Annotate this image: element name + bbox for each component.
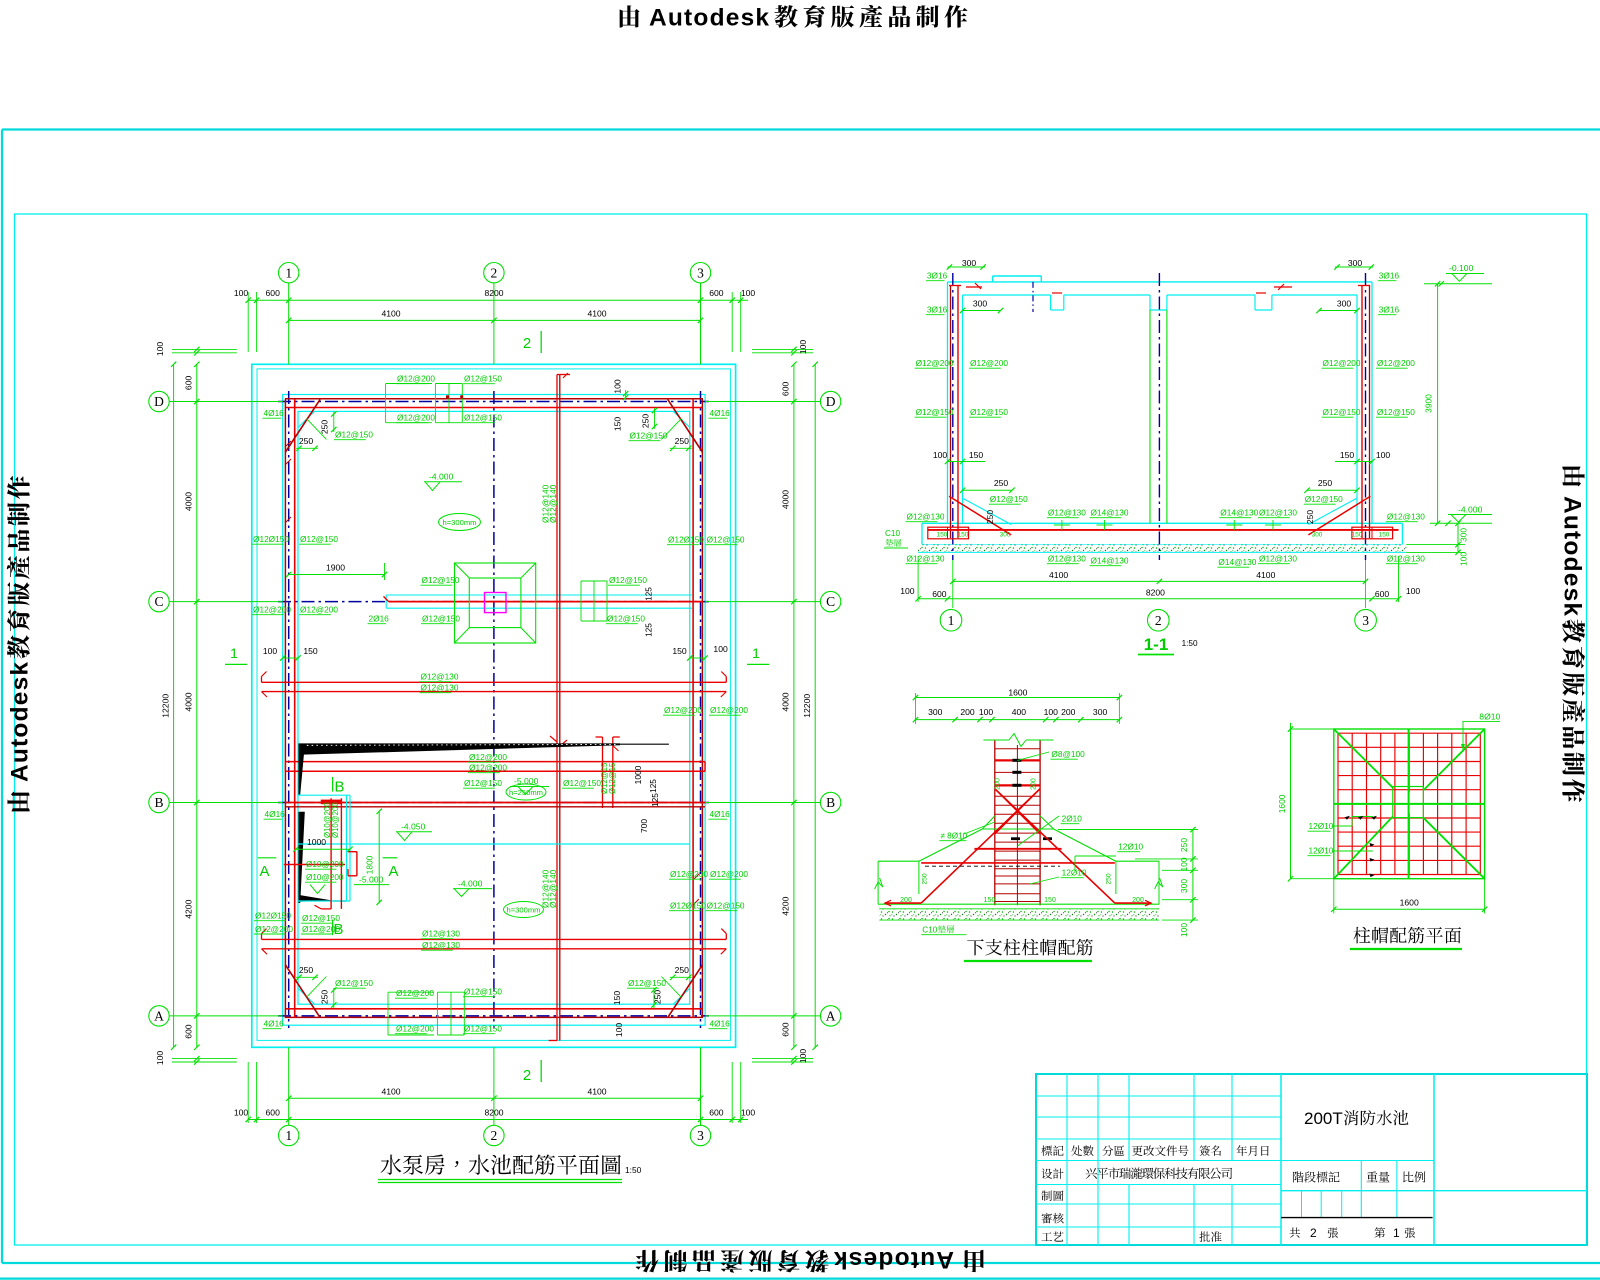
- plan: corner chamfers: [298, 411, 315, 427]
- detail2: green diagonals: [1334, 729, 1394, 788]
- svg-text:1600: 1600: [1400, 898, 1419, 908]
- svg-text:Ø12@150: Ø12@150: [335, 430, 373, 440]
- svg-text:B: B: [334, 779, 344, 796]
- svg-text:200: 200: [960, 707, 975, 717]
- svg-text:300: 300: [1348, 258, 1363, 268]
- left banner (rotated -90): [7, 476, 34, 811]
- svg-text:2: 2: [491, 265, 498, 280]
- svg-text:3: 3: [697, 265, 704, 280]
- detail2: title: [1354, 927, 1462, 944]
- svg-text:250: 250: [641, 414, 651, 429]
- svg-text:Ø12@150: Ø12@150: [335, 978, 373, 988]
- plan grid circles bottom 1 2 3: [279, 1125, 299, 1145]
- svg-text:Ø12@150: Ø12@150: [916, 407, 954, 417]
- plan: left dimension chain: [196, 364, 198, 1047]
- svg-text:150: 150: [969, 450, 984, 460]
- svg-text:Ø12@150: Ø12@150: [970, 407, 1008, 417]
- svg-text:600: 600: [1375, 589, 1390, 599]
- svg-text:250: 250: [1105, 873, 1112, 885]
- svg-text:Ø12@150: Ø12@150: [422, 575, 460, 585]
- svg-text:A: A: [826, 1009, 836, 1024]
- svg-text:100: 100: [798, 1049, 808, 1064]
- detail2: green cross: [1408, 729, 1410, 879]
- svg-text:150: 150: [1352, 532, 1363, 539]
- svg-text:-5.000: -5.000: [359, 875, 384, 885]
- svg-text:3Ø16: 3Ø16: [927, 271, 948, 281]
- svg-text:150: 150: [613, 417, 623, 432]
- inner drawing frame: [15, 214, 1587, 1245]
- detail1: red X diagonals: [995, 789, 1115, 903]
- svg-text:100: 100: [155, 342, 165, 357]
- svg-text:Ø12@200: Ø12@200: [396, 1024, 434, 1034]
- svg-text:Ø12@200: Ø12@200: [1323, 358, 1361, 368]
- plan main title: [381, 1155, 621, 1175]
- svg-text:250: 250: [675, 965, 690, 975]
- svg-text:4Ø16: 4Ø16: [264, 408, 285, 418]
- svg-text:1: 1: [948, 613, 955, 628]
- svg-text:h=300mm: h=300mm: [507, 905, 541, 914]
- svg-text:Ø12@200: Ø12@200: [253, 605, 291, 615]
- svg-text:600: 600: [184, 376, 194, 391]
- svg-text:125: 125: [651, 793, 660, 807]
- section: wall red bars: [950, 285, 952, 538]
- svg-text:250: 250: [994, 478, 1009, 488]
- detail2: left dim 1600: [1290, 723, 1292, 879]
- title block texts row1: [1041, 1145, 1063, 1156]
- svg-text:Ø12@200: Ø12@200: [710, 869, 748, 879]
- plan: right dimension chain: [793, 364, 795, 1047]
- svg-text:250: 250: [675, 436, 690, 446]
- svg-text:300: 300: [1459, 528, 1469, 542]
- section: slab red main bar: [928, 529, 1399, 531]
- plan: C-axis red bar: [389, 601, 703, 603]
- plan: wall inner face: [298, 411, 690, 1004]
- svg-text:100: 100: [741, 1108, 756, 1118]
- section: base slab: [922, 522, 1402, 524]
- svg-text:Ø12@130: Ø12@130: [422, 940, 460, 950]
- svg-text:100: 100: [900, 586, 915, 596]
- svg-text:Ø10@200: Ø10@200: [306, 873, 344, 882]
- svg-text:Ø12@150: Ø12@150: [607, 614, 645, 624]
- svg-text:Ø12@200: Ø12@200: [1377, 358, 1415, 368]
- svg-text:4000: 4000: [184, 692, 194, 711]
- svg-text:Ø12@200: Ø12@200: [469, 752, 507, 762]
- svg-text:1:50: 1:50: [625, 1165, 642, 1175]
- svg-text:4100: 4100: [1049, 570, 1068, 580]
- svg-text:Ø12@200: Ø12@200: [670, 869, 708, 879]
- detail1: top break line: [983, 739, 1009, 741]
- plan: center column cap squares: [455, 563, 536, 643]
- svg-text:150: 150: [1379, 532, 1390, 539]
- svg-text:150: 150: [612, 991, 622, 1006]
- svg-text:Autodesk: Autodesk: [649, 5, 770, 32]
- svg-text:Ø12Ø150: Ø12Ø150: [670, 901, 706, 911]
- section: bedding hatch strip: [918, 545, 1406, 553]
- svg-text:4Ø16: 4Ø16: [265, 809, 286, 819]
- svg-text:Ø12@200: Ø12@200: [302, 924, 340, 934]
- svg-text:Ø12@150: Ø12@150: [464, 413, 502, 423]
- svg-text:Autodesk: Autodesk: [7, 661, 34, 782]
- plan: black section wedge bottom: [299, 895, 334, 902]
- svg-text:300: 300: [973, 299, 988, 309]
- svg-text:4Ø16: 4Ø16: [264, 1019, 285, 1029]
- svg-text:12Ø10: 12Ø10: [1309, 846, 1334, 856]
- svg-text:100: 100: [1406, 586, 1421, 596]
- svg-text:h=250mm: h=250mm: [509, 788, 543, 797]
- svg-text:4Ø16: 4Ø16: [710, 1019, 731, 1029]
- svg-text:200: 200: [900, 897, 912, 904]
- svg-text:4Ø16: 4Ø16: [710, 809, 731, 819]
- svg-text:600: 600: [781, 1022, 791, 1037]
- detail1: cap green outline: [982, 828, 1053, 830]
- svg-text:Ø12@140: Ø12@140: [548, 869, 558, 908]
- title block texts col labels: [1041, 1168, 1063, 1179]
- svg-text:D: D: [154, 394, 164, 409]
- svg-text:Ø12@130: Ø12@130: [1048, 554, 1086, 564]
- svg-text:4000: 4000: [781, 490, 791, 509]
- svg-text:700: 700: [639, 819, 649, 833]
- detail2: center hole: [1397, 792, 1418, 813]
- detail1: inner X: [995, 789, 1040, 834]
- svg-text:1: 1: [285, 1128, 292, 1143]
- svg-text:Ø12@15: Ø12@15: [608, 762, 617, 794]
- svg-text:3Ø16: 3Ø16: [927, 305, 948, 315]
- svg-text:3: 3: [697, 1128, 704, 1143]
- svg-text:Ø12@200: Ø12@200: [396, 988, 434, 998]
- svg-text:250: 250: [1179, 838, 1189, 852]
- section: 3900 dim: [1437, 284, 1439, 524]
- svg-text:200: 200: [1132, 897, 1144, 904]
- detail2: red grid: [1337, 733, 1339, 874]
- title block right area cells: [1360, 1161, 1362, 1218]
- svg-text:1: 1: [230, 645, 238, 661]
- svg-text:12Ø10: 12Ø10: [1309, 821, 1334, 831]
- plan: wall rebar lines red: [285, 398, 703, 400]
- svg-text:-4.050: -4.050: [401, 822, 426, 832]
- svg-text:Ø12@130: Ø12@130: [1387, 512, 1425, 522]
- svg-text:Ø12@150: Ø12@150: [707, 535, 745, 545]
- svg-text:Ø10@200: Ø10@200: [331, 802, 340, 838]
- svg-text:200: 200: [1061, 707, 1076, 717]
- svg-text:300: 300: [1093, 707, 1108, 717]
- svg-text:Ø12@150: Ø12@150: [630, 431, 668, 441]
- svg-text:600: 600: [932, 589, 947, 599]
- svg-text:2: 2: [1310, 1226, 1317, 1240]
- svg-text:C: C: [826, 594, 835, 609]
- svg-text:4100: 4100: [587, 1086, 606, 1096]
- svg-text:100: 100: [1044, 707, 1059, 717]
- svg-text:3: 3: [1362, 613, 1369, 628]
- plan: h=300mm ellipse upper: [439, 514, 481, 531]
- svg-text:C: C: [154, 594, 163, 609]
- detail2: black arrow marks: [1345, 816, 1351, 820]
- svg-text:12200: 12200: [802, 694, 812, 718]
- svg-text:1800: 1800: [365, 855, 375, 874]
- plan: wall outer face: [283, 395, 705, 1026]
- svg-text:A: A: [259, 863, 269, 880]
- plan: pit red bracket: [356, 852, 358, 876]
- svg-text:1-1: 1-1: [1144, 635, 1169, 654]
- plan: B-axis red bars: [285, 802, 705, 804]
- svg-text:Ø12@150: Ø12@150: [707, 901, 745, 911]
- svg-text:Ø12@140: Ø12@140: [548, 484, 558, 523]
- svg-text:100: 100: [1459, 552, 1469, 566]
- svg-text:Ø12@150: Ø12@150: [609, 575, 647, 585]
- svg-text:150: 150: [1340, 450, 1355, 460]
- svg-text:150: 150: [672, 646, 687, 656]
- svg-text:12200: 12200: [161, 694, 171, 718]
- plan grid circles left D C B A: [149, 391, 169, 411]
- svg-text:Ø14@130: Ø14@130: [1091, 508, 1129, 518]
- svg-text:600: 600: [709, 1108, 724, 1118]
- plan: corner 250 dims top-right: [654, 408, 656, 428]
- svg-text:200: 200: [995, 778, 1002, 790]
- svg-text:600: 600: [184, 1024, 194, 1039]
- detail1: cap red horizontals: [974, 848, 1061, 850]
- section: roof red hooks: [966, 286, 982, 288]
- svg-text:Ø12@200: Ø12@200: [255, 924, 293, 934]
- svg-text:600: 600: [709, 288, 724, 298]
- svg-text:100: 100: [741, 288, 756, 298]
- plan: red corner diagonal bars: [285, 399, 320, 452]
- svg-text:1000: 1000: [633, 765, 643, 784]
- svg-text:150: 150: [303, 646, 318, 656]
- svg-text:Ø12@200: Ø12@200: [397, 374, 435, 384]
- title block verticals left grid: [1066, 1074, 1068, 1161]
- svg-text:100: 100: [614, 1023, 624, 1038]
- title block sheet row: [1289, 1227, 1300, 1237]
- svg-text:2Ø10: 2Ø10: [1062, 814, 1083, 824]
- plan: black section wedge horizontal (B-B cut): [299, 743, 621, 754]
- svg-text:Ø12@200: Ø12@200: [710, 705, 748, 715]
- svg-text:300: 300: [1337, 299, 1352, 309]
- section: tiny bar marks in slab: [1061, 520, 1063, 530]
- svg-text:400: 400: [1012, 707, 1027, 717]
- section: roof slab outline: [948, 281, 1373, 283]
- plan: h=300mm ellipse lower: [504, 902, 544, 918]
- svg-text:600: 600: [781, 382, 791, 397]
- svg-text:4100: 4100: [381, 1086, 400, 1096]
- svg-text:4000: 4000: [184, 492, 194, 511]
- svg-text:Ø8@100: Ø8@100: [1051, 749, 1085, 759]
- svg-text:-5.000: -5.000: [514, 776, 539, 786]
- svg-text:100: 100: [234, 1108, 249, 1118]
- section: right 300 100 dims: [1457, 523, 1459, 552]
- svg-text:125: 125: [649, 779, 658, 793]
- svg-text:300: 300: [962, 258, 977, 268]
- svg-text:300: 300: [1000, 532, 1011, 539]
- svg-text:Ø12@150: Ø12@150: [1377, 407, 1415, 417]
- svg-text:B: B: [154, 795, 163, 810]
- plan grid circles top 1 2 3: [279, 263, 299, 283]
- svg-text:3Ø16: 3Ø16: [1379, 271, 1400, 281]
- svg-text:Ø12@200: Ø12@200: [916, 358, 954, 368]
- svg-text:Ø12@200: Ø12@200: [300, 605, 338, 615]
- svg-text:250: 250: [1305, 510, 1315, 524]
- section: wall top red marks: [949, 285, 961, 287]
- svg-text:300: 300: [1179, 879, 1189, 893]
- svg-text:≠ 8Ø10: ≠ 8Ø10: [940, 832, 967, 841]
- svg-text:1: 1: [285, 265, 292, 280]
- svg-text:Ø12@200: Ø12@200: [397, 413, 435, 423]
- svg-text:Autodesk: Autodesk: [1559, 496, 1586, 617]
- svg-text:Ø12Ø150: Ø12Ø150: [255, 911, 291, 921]
- plan: green axis stub lines: [288, 283, 290, 364]
- svg-text:Ø12@150: Ø12@150: [563, 778, 601, 788]
- svg-text:Ø12@130: Ø12@130: [421, 672, 459, 682]
- plan: red bar pair phi12at200: [285, 761, 705, 763]
- detail1: column verticals red: [994, 740, 996, 905]
- title block stage row: [1293, 1171, 1340, 1182]
- plan: floor step cyan line: [299, 843, 690, 845]
- svg-text:200: 200: [1031, 778, 1038, 790]
- plan: short vertical rebar pair near grid2: [602, 737, 604, 808]
- bottom banner (rotated 180): [636, 1246, 984, 1273]
- plan: red bar pair phi12at130 lower: [262, 938, 727, 940]
- svg-text:C10: C10: [922, 926, 937, 935]
- plan: bottom dimension chain: [289, 1097, 701, 1099]
- svg-text:250: 250: [320, 420, 330, 435]
- svg-text:100: 100: [933, 450, 948, 460]
- svg-text:Ø12@200: Ø12@200: [469, 763, 507, 773]
- svg-text:-4.000: -4.000: [429, 472, 454, 482]
- svg-text:250: 250: [320, 990, 330, 1005]
- svg-text:Ø12@150: Ø12@150: [464, 1024, 502, 1034]
- svg-text:1600: 1600: [1277, 794, 1287, 813]
- outer drawing frame: [2, 128, 1600, 130]
- svg-text:Ø12Ø150: Ø12Ø150: [668, 535, 704, 545]
- svg-text:Ø12@130: Ø12@130: [421, 683, 459, 693]
- svg-text:100: 100: [713, 644, 728, 654]
- svg-text:8Ø10: 8Ø10: [1479, 712, 1500, 722]
- svg-text:Autodesk: Autodesk: [833, 1246, 954, 1273]
- svg-text:250: 250: [1318, 478, 1333, 488]
- svg-text:C10: C10: [885, 529, 900, 538]
- svg-text:Ø12@150: Ø12@150: [422, 614, 460, 624]
- svg-text:100: 100: [613, 379, 623, 394]
- section: right wall: [1371, 282, 1373, 523]
- section: grid circles 1 2 3: [940, 609, 962, 631]
- detail1: sub dims: [916, 719, 1120, 721]
- svg-text:300: 300: [928, 707, 943, 717]
- svg-text:100: 100: [798, 340, 808, 355]
- svg-text:600: 600: [266, 1108, 281, 1118]
- svg-text:250: 250: [299, 965, 314, 975]
- svg-text:Ø14@130: Ø14@130: [1220, 508, 1258, 518]
- svg-text:8200: 8200: [484, 288, 503, 298]
- plan: black section wedge vertical upper: [299, 745, 305, 795]
- svg-text:Ø12@150: Ø12@150: [1323, 407, 1361, 417]
- plan: tank outer boundary double rect: [252, 364, 736, 1047]
- svg-text:4200: 4200: [184, 899, 194, 918]
- svg-text:600: 600: [266, 288, 281, 298]
- title block black line: [1281, 1217, 1433, 1219]
- svg-text:Ø12Ø150: Ø12Ø150: [253, 534, 289, 544]
- right banner (rotated +90): [1559, 467, 1586, 802]
- plan: navy axis lines: [278, 401, 709, 403]
- section: bottom dims: [953, 580, 1366, 582]
- detail1: title: [967, 939, 1093, 956]
- svg-text:1:50: 1:50: [1182, 639, 1198, 648]
- svg-text:Ø12@150: Ø12@150: [464, 778, 502, 788]
- plan: pit red bars: [330, 798, 332, 909]
- plan: small red lap hooks on walls: [285, 441, 291, 447]
- plan: black section wedge vertical lower: [299, 812, 305, 903]
- svg-text:-4.000: -4.000: [1458, 505, 1483, 515]
- detail1: column center line: [1016, 745, 1018, 905]
- svg-text:150: 150: [984, 897, 996, 904]
- svg-text:Ø10@200: Ø10@200: [306, 860, 344, 869]
- svg-text:1600: 1600: [1008, 688, 1027, 698]
- section: red foot boxes: [928, 527, 969, 539]
- svg-text:4200: 4200: [781, 896, 791, 915]
- plan: sump pit cyan outline: [299, 794, 351, 796]
- svg-text:2: 2: [491, 1128, 498, 1143]
- svg-text:A: A: [388, 863, 398, 880]
- svg-text:150: 150: [1044, 897, 1056, 904]
- svg-text:Ø14@130: Ø14@130: [1091, 556, 1129, 566]
- section: center column green: [1149, 310, 1151, 523]
- svg-text:Ø12@150: Ø12@150: [464, 374, 502, 384]
- title block horizontals: [1036, 1095, 1281, 1097]
- svg-text:4100: 4100: [1256, 570, 1275, 580]
- svg-text:4000: 4000: [781, 692, 791, 711]
- svg-text:8200: 8200: [1146, 588, 1165, 598]
- svg-text:B: B: [826, 795, 835, 810]
- svg-text:4100: 4100: [587, 308, 606, 318]
- svg-text:300: 300: [1312, 532, 1323, 539]
- svg-text:Ø14@130: Ø14@130: [1218, 557, 1256, 567]
- plan: top dimension chain: [248, 299, 748, 301]
- svg-text:150: 150: [937, 532, 948, 539]
- svg-text:125: 125: [645, 623, 654, 637]
- svg-text:100: 100: [155, 1051, 165, 1066]
- detail2: bottom dim 1600: [1334, 908, 1485, 910]
- title block outer: [1036, 1074, 1587, 1245]
- svg-text:100: 100: [1376, 450, 1391, 460]
- svg-text:D: D: [826, 394, 836, 409]
- svg-text:100: 100: [263, 646, 278, 656]
- svg-text:12Ø10: 12Ø10: [1118, 842, 1143, 852]
- svg-text:3900: 3900: [1424, 394, 1434, 413]
- svg-text:Ø12@150: Ø12@150: [1305, 494, 1343, 504]
- svg-text:200T: 200T: [1304, 1109, 1343, 1128]
- svg-text:h=300mm: h=300mm: [443, 518, 477, 527]
- plan: long vertical rebar pair at x=558: [556, 375, 558, 1041]
- plan: column magenta square: [485, 593, 507, 613]
- svg-text:2: 2: [523, 1067, 531, 1084]
- plan grid circles right D C B A: [820, 391, 840, 411]
- plan: h=250mm ellipse: [506, 784, 546, 800]
- svg-text:12Ø10: 12Ø10: [1062, 868, 1087, 878]
- detail1: column rungs: [995, 748, 1040, 750]
- svg-text:Ø12@150: Ø12@150: [300, 534, 338, 544]
- section: navy axes: [952, 273, 954, 560]
- plan: red bar pair phi12at130 upper: [262, 681, 727, 683]
- svg-text:4100: 4100: [381, 308, 400, 318]
- svg-text:Ø12@200: Ø12@200: [664, 705, 702, 715]
- svg-text:Ø12@130: Ø12@130: [1048, 508, 1086, 518]
- svg-text:Ø12@200: Ø12@200: [970, 358, 1008, 368]
- svg-text:100: 100: [979, 707, 994, 717]
- svg-text:Ø12@150: Ø12@150: [464, 987, 502, 997]
- detail1: black tie dots: [1012, 759, 1021, 762]
- svg-text:Ø12@130: Ø12@130: [422, 929, 460, 939]
- top banner: Autodesk education text: [620, 5, 640, 27]
- svg-text:4Ø16: 4Ø16: [710, 408, 731, 418]
- svg-text:Ø12@130: Ø12@130: [1259, 508, 1297, 518]
- svg-text:3Ø16: 3Ø16: [1379, 305, 1400, 315]
